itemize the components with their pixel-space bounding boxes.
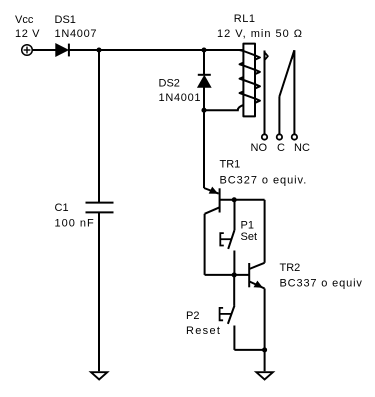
svg-text:BC337 o equiv: BC337 o equiv: [280, 278, 363, 290]
wire right rail down to TR2 collector: [264, 200, 266, 263]
wire Vcc to DS1 anode: [33, 49, 56, 51]
wire top rail DS1 cathode to relay coil: [69, 49, 244, 51]
junction node ground rail: [262, 347, 267, 352]
transistor TR2 (NPN): [249, 263, 264, 289]
ground symbol right: [256, 372, 273, 379]
svg-text:Reset: Reset: [186, 325, 221, 337]
transistor TR1 (PNP): [204, 187, 220, 214]
wire relay coil bottom to junction (exit curl): [204, 105, 244, 110]
svg-text:RL1: RL1: [234, 13, 256, 25]
ground symbol left: [91, 372, 107, 379]
junction node top of C1 branch: [96, 47, 101, 52]
wire TR1 base to right rail: [220, 199, 265, 201]
svg-text:Set: Set: [241, 231, 258, 243]
svg-text:12 V: 12 V: [15, 28, 40, 40]
svg-text:1N4001: 1N4001: [159, 92, 202, 104]
junction node TR1 base / P1 top: [232, 197, 237, 202]
relay contact C (common arm): [277, 50, 295, 139]
svg-text:P2: P2: [186, 310, 199, 322]
wire DS2 junction to TR1 emitter: [203, 110, 205, 188]
svg-text:Vcc: Vcc: [15, 14, 34, 26]
wire DS2 anode lead: [203, 87, 205, 110]
wire junction to C1 top plate: [98, 50, 100, 203]
svg-text:DS2: DS2: [159, 78, 180, 90]
svg-text:100 nF: 100 nF: [55, 218, 95, 230]
wire C1 bottom plate to ground: [98, 212, 100, 371]
wire P2 bottom to ground node: [234, 349, 264, 351]
push button P2: [220, 275, 235, 350]
svg-text:12 V, min 50 Ω: 12 V, min 50 Ω: [217, 28, 303, 40]
wire DS2 cathode lead: [203, 50, 205, 75]
wire TR1 collector to TR2 base: [205, 274, 250, 276]
junction node DS2 anode / relay coil bottom: [201, 108, 206, 113]
svg-text:P1: P1: [241, 220, 254, 232]
capacitor C1: [86, 203, 114, 213]
svg-text:1N4007: 1N4007: [55, 28, 98, 40]
wire TR2 emitter down: [264, 289, 266, 350]
relay RL1 coil: [240, 44, 260, 117]
power symbol Vcc (+12V terminal): [22, 45, 33, 56]
svg-text:NC: NC: [294, 142, 310, 154]
svg-text:C: C: [277, 142, 285, 154]
wire TR1 collector down: [204, 214, 206, 275]
svg-text:BC327 o equiv.: BC327 o equiv.: [220, 175, 308, 187]
svg-text:NO: NO: [251, 142, 268, 154]
relay contact NC: [292, 50, 297, 139]
junction node TR2 base / P1 bottom / P2 top: [232, 272, 237, 277]
diode DS2: [198, 75, 211, 88]
svg-text:C1: C1: [55, 202, 69, 214]
junction node top of DS2: [201, 47, 206, 52]
push button P1: [220, 200, 234, 275]
relay contact NO: [262, 51, 268, 140]
diode DS1: [56, 44, 69, 57]
svg-text:TR2: TR2: [280, 262, 301, 274]
svg-text:TR1: TR1: [220, 159, 241, 171]
wire ground node down: [264, 350, 266, 371]
svg-text:DS1: DS1: [55, 14, 76, 26]
